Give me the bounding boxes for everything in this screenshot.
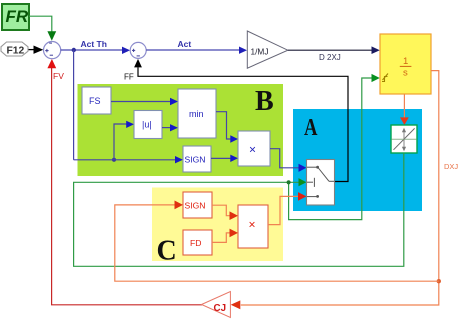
node junction DXJ bbox=[437, 279, 441, 283]
svg-text:SIGN: SIGN bbox=[185, 201, 206, 211]
svg-text:Act Th: Act Th bbox=[81, 39, 107, 49]
wire reset (green, up into integrator) bbox=[289, 78, 372, 220]
wire Act (sum S2 to gain 1/MJ, blue) bbox=[146, 49, 239, 51]
arrowhead into gain CJ bbox=[231, 300, 241, 309]
wire product C to switch (orange/red) bbox=[268, 196, 299, 224]
svg-text:FS: FS bbox=[89, 96, 101, 106]
wire saturation out (green loop to switch middle input) bbox=[74, 153, 404, 266]
block SIGN B bbox=[183, 146, 211, 172]
block abs |u| bbox=[134, 111, 162, 139]
integrator 1/s bbox=[380, 34, 431, 94]
svg-text:1/MJ: 1/MJ bbox=[251, 46, 269, 56]
wire to SIGN B (blue) bbox=[74, 159, 176, 161]
svg-text:FV: FV bbox=[53, 71, 64, 81]
block SIGN C bbox=[183, 192, 212, 218]
wire integrator bottom out (orange) to saturation bbox=[403, 94, 405, 118]
svg-text:C: C bbox=[157, 236, 177, 267]
svg-text:×: × bbox=[249, 218, 256, 232]
switch block bbox=[307, 160, 335, 206]
node junction on Act Th bbox=[72, 48, 76, 52]
block FD bbox=[183, 230, 212, 255]
sum S2 bbox=[130, 42, 146, 58]
wire FF (black feedback from switch to sum S2) bbox=[138, 67, 348, 181]
product block C bbox=[238, 205, 268, 248]
wire SIGN C to product C (orange) bbox=[212, 205, 231, 216]
wire into abs |u| (blue) bbox=[112, 158, 116, 162]
gain CJ bbox=[202, 292, 231, 318]
input F12 bbox=[1, 42, 28, 56]
block FR bbox=[2, 4, 29, 30]
svg-text:FF: FF bbox=[124, 73, 134, 82]
wire min to product (blue) bbox=[216, 112, 231, 139]
wire product B to switch (blue) bbox=[270, 149, 299, 168]
svg-text:Act: Act bbox=[178, 39, 192, 49]
block min bbox=[178, 89, 216, 138]
integrator reset glyph bbox=[382, 74, 388, 82]
svg-text:FD: FD bbox=[190, 238, 201, 248]
sum S1 bbox=[44, 42, 61, 59]
saturation block bbox=[391, 125, 417, 153]
wire DXJ (orange, integrator right out) bbox=[241, 71, 439, 305]
svg-text:DXJ: DXJ bbox=[444, 162, 458, 171]
svg-text:D 2XJ: D 2XJ bbox=[319, 53, 341, 62]
region B bbox=[78, 84, 284, 176]
svg-text:min: min bbox=[189, 109, 204, 119]
wire FD to product C (orange) bbox=[212, 233, 231, 243]
svg-text:F12: F12 bbox=[7, 46, 25, 57]
gain 1/MJ bbox=[247, 31, 287, 68]
wire into SIGN C (orange) bbox=[115, 205, 439, 281]
svg-text:CJ: CJ bbox=[214, 303, 227, 314]
block FS bbox=[82, 87, 111, 114]
wire FS to min (blue) bbox=[111, 101, 170, 103]
wire F12 to sum S1 (black) bbox=[29, 49, 35, 51]
svg-text:SIGN: SIGN bbox=[185, 155, 206, 165]
node junction green bbox=[287, 180, 291, 184]
region A bbox=[293, 109, 422, 211]
product block B bbox=[238, 131, 270, 166]
wire FV (red, from CJ up into sum S1) bbox=[52, 68, 202, 305]
wire FR to sum S1 (green) bbox=[29, 16, 52, 31]
svg-text:FR: FR bbox=[6, 7, 29, 26]
svg-text:|u|: |u| bbox=[142, 120, 152, 130]
svg-text:×: × bbox=[249, 143, 256, 157]
wire Act Th (sum S1 to sum S2, blue) bbox=[61, 49, 123, 51]
svg-text:1: 1 bbox=[403, 56, 408, 67]
svg-text:B: B bbox=[255, 86, 274, 117]
wire D 2XJ (gain to integrator, dark) bbox=[288, 49, 372, 51]
wire abs to min (blue) bbox=[162, 127, 170, 129]
svg-text:A: A bbox=[304, 114, 318, 141]
wire SIGN B to product (blue) bbox=[211, 157, 231, 159]
region C bbox=[152, 188, 283, 262]
wire down from junction (blue) bbox=[73, 50, 75, 160]
svg-text:s: s bbox=[403, 68, 408, 79]
